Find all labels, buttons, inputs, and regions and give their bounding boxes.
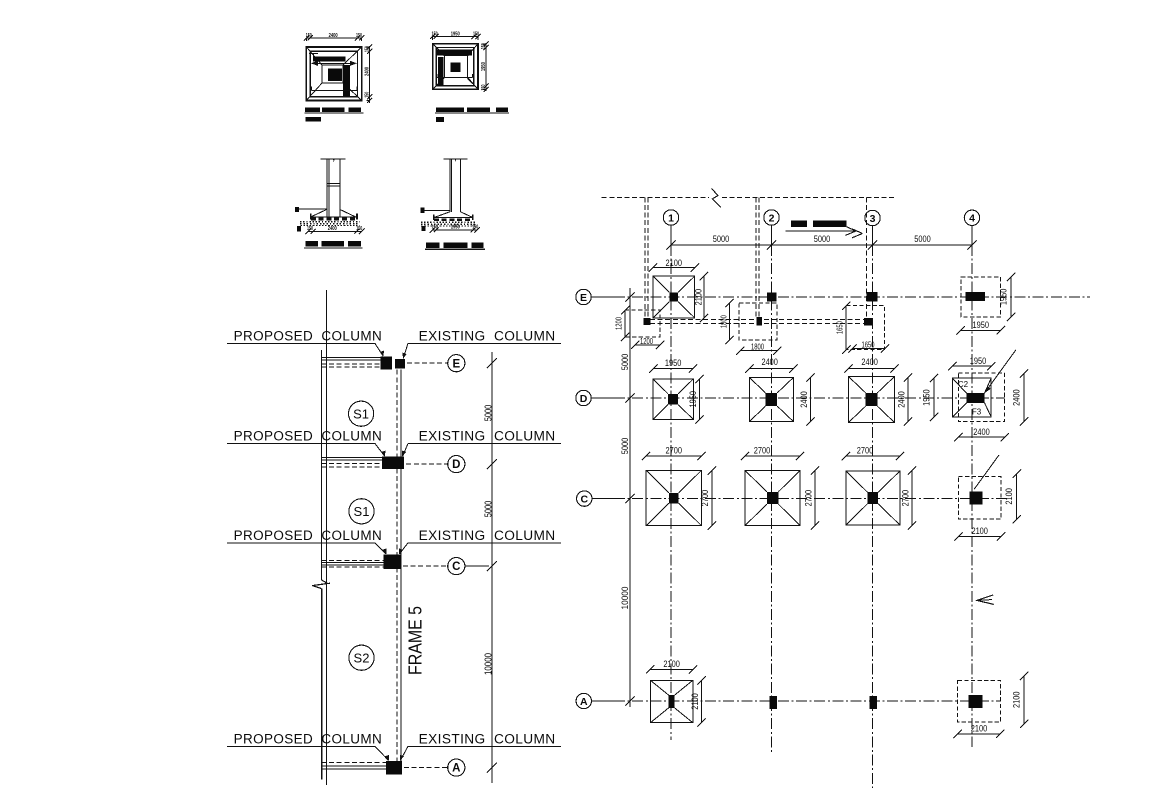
footing section S1 - left micro level marks <box>297 226 301 232</box>
svg-text:2400: 2400 <box>896 391 906 408</box>
column at E2 (hatched square on grid) <box>767 292 777 301</box>
footing detail F2 plan - inner edge <box>436 47 474 85</box>
footing section S1 - rebar dashes in slab <box>311 218 357 221</box>
svg-text:2100: 2100 <box>971 526 988 536</box>
row C - dashed line to grid bubble <box>403 565 447 567</box>
svg-text:2100: 2100 <box>971 724 988 734</box>
row C - grid bubble C <box>448 558 465 575</box>
row D - proposed column section (solid square) <box>382 457 404 469</box>
column at E4 (black wide) <box>966 292 985 301</box>
svg-text:2400: 2400 <box>365 67 371 76</box>
svg-text:2100: 2100 <box>663 659 680 669</box>
row E - PROPOSED COLUMN underline leader <box>227 342 375 344</box>
existing column solid edge (vertical) <box>400 370 402 761</box>
frame elevation - break symbol <box>312 580 327 589</box>
footing E1 - outline <box>653 276 695 318</box>
svg-text:2100: 2100 <box>1012 692 1022 709</box>
footing detail F2 plan - rebar label bar (redacted) <box>436 50 472 56</box>
svg-text:FRAME 5: FRAME 5 <box>405 606 425 675</box>
svg-text:10000: 10000 <box>483 653 494 675</box>
svg-text:150: 150 <box>432 31 438 37</box>
svg-text:1950: 1950 <box>999 289 1009 306</box>
footing C1 - column <box>669 493 679 504</box>
footing D4 - diagonals <box>952 378 966 393</box>
footing A4 - column (black) <box>969 695 983 708</box>
footing C2 - outline <box>745 471 800 526</box>
svg-text:1950: 1950 <box>481 62 487 71</box>
svg-text:1650: 1650 <box>836 321 845 334</box>
footing C3 - diagonals <box>846 471 868 492</box>
plan - grid line 1 (vertical) <box>670 225 672 245</box>
svg-text:PROPOSED COLUMN: PROPOSED COLUMN <box>234 429 383 445</box>
row E - grid bubble E <box>448 355 465 372</box>
svg-text:2700: 2700 <box>900 490 910 507</box>
column A3 (black) <box>870 696 877 709</box>
footing D3 - top dim 2400 <box>849 368 895 370</box>
svg-text:2700: 2700 <box>857 446 874 456</box>
footing C3 - right dim 2700 <box>911 471 913 526</box>
footing detail F1 plan - column (solid) <box>328 69 342 81</box>
svg-text:150: 150 <box>356 33 362 39</box>
plan - grid line 2 (vertical) <box>771 225 773 245</box>
svg-text:5000: 5000 <box>483 404 494 421</box>
svg-text:1950: 1950 <box>973 320 990 330</box>
svg-text:S2: S2 <box>354 650 370 665</box>
footing detail F2 plan - column (solid) <box>450 62 460 72</box>
footing C3 - outline <box>846 471 900 525</box>
footing detail F2 plan - outer edge <box>433 44 478 90</box>
footing D1 - top dim 1950 <box>653 368 693 370</box>
svg-text:2100: 2100 <box>690 693 700 710</box>
footing section S1 - bottom dimension line <box>308 230 361 232</box>
svg-text:1950: 1950 <box>665 358 682 368</box>
svg-text:2100: 2100 <box>666 258 683 268</box>
svg-text:150: 150 <box>473 31 479 37</box>
plan - grid row C line <box>592 498 614 500</box>
footing detail F1 - caption bars (redacted title) <box>305 108 320 113</box>
existing column at E2 (black) <box>757 317 762 325</box>
footing D2 - outline <box>749 378 793 422</box>
footing detail F2 plan - diagonal 3 <box>433 78 445 90</box>
footing C1 - diagonals <box>646 470 669 493</box>
svg-text:C2: C2 <box>958 380 969 389</box>
svg-text:EXISTING COLUMN: EXISTING COLUMN <box>419 328 556 344</box>
svg-text:PROPOSED COLUMN: PROPOSED COLUMN <box>234 731 383 747</box>
plan - existing building dashed outline (top) <box>602 196 709 198</box>
svg-text:2: 2 <box>769 212 775 224</box>
svg-text:EXISTING COLUMN: EXISTING COLUMN <box>419 731 556 747</box>
svg-text:5000: 5000 <box>620 438 631 455</box>
svg-text:PROPOSED COLUMN: PROPOSED COLUMN <box>234 328 383 344</box>
existing footing E3 - left dim 1650 <box>845 306 847 350</box>
plan - grid row A line <box>592 700 615 702</box>
footing C2 - right dim 2700 <box>814 471 816 526</box>
footing C2 - column <box>767 492 779 504</box>
row A - grid bubble A <box>448 759 465 776</box>
footing D2 - diagonals <box>749 378 765 393</box>
row A - beam lines <box>322 762 387 764</box>
plan - top dimension line <box>671 244 972 246</box>
plan - grid bubble 4 <box>964 210 979 225</box>
footing section S2 - column cap line <box>443 158 467 160</box>
svg-text:1200: 1200 <box>615 317 624 330</box>
svg-text:1950: 1950 <box>970 356 987 366</box>
plan - grid bubble 2 <box>764 210 779 225</box>
footing section S2 - bottom dimension line <box>432 229 477 231</box>
svg-text:2700: 2700 <box>700 490 710 507</box>
svg-text:1950: 1950 <box>688 391 698 408</box>
footing D1 - diagonals <box>653 379 668 394</box>
svg-text:C: C <box>581 493 589 505</box>
svg-text:10000: 10000 <box>620 587 631 610</box>
plan - grid bubble 3 <box>865 210 880 225</box>
footing D2 - top dim 2400 <box>749 368 793 370</box>
footing D2 - column <box>766 393 778 406</box>
footing detail F1 - top dimension line <box>306 37 361 39</box>
footing E4 - bottom dim 1950 <box>961 329 1001 331</box>
existing column at E3 (black) <box>864 318 872 325</box>
footing detail F1 plan - rebar label bar (redacted) <box>313 57 345 62</box>
plan - grid row E bubble <box>576 289 591 304</box>
footing A4 - dashed square <box>958 680 1001 722</box>
footing A4 - bottom dim 2100 <box>958 733 1001 735</box>
plan - grid row D line <box>591 397 614 399</box>
svg-text:150: 150 <box>472 225 478 231</box>
frame elevation - second vertical line lower segment <box>321 589 323 780</box>
footing detail F2 - right dimension line <box>485 43 487 91</box>
footing section S2 - column left edge lines <box>449 159 451 212</box>
svg-text:E: E <box>580 292 587 304</box>
frame elevation - S1 bubble lower <box>349 499 374 524</box>
footing detail F1 plan - rebar arrow line <box>313 62 356 64</box>
column at E3 (hatched square on grid) <box>867 292 878 301</box>
svg-text:2700: 2700 <box>754 446 771 456</box>
footing detail F1 - caption scale bar (redacted) <box>305 117 320 122</box>
footing section S1 - left haunch slope <box>312 209 327 216</box>
svg-text:1650: 1650 <box>862 341 875 350</box>
plan - grid row C bubble <box>577 491 592 506</box>
svg-text:1950: 1950 <box>451 225 460 231</box>
svg-text:150: 150 <box>307 226 313 232</box>
footing section S2 - caption bars (redacted title) <box>426 242 439 248</box>
footing section S2 - caption underline <box>425 248 485 250</box>
row E - proposed column section (solid square) <box>381 357 392 370</box>
row D - EXISTING COLUMN underline leader <box>408 442 561 444</box>
svg-text:S1: S1 <box>353 406 369 421</box>
plan - left dimension line (rows) <box>629 288 631 707</box>
svg-text:1950: 1950 <box>451 31 460 37</box>
footing detail F1 plan - diagonal 2 <box>343 47 362 65</box>
row D - grid bubble D <box>448 456 465 473</box>
svg-text:150: 150 <box>481 43 487 49</box>
footing section S2 - right haunch slope <box>461 212 474 218</box>
footing C2 - top dim 2700 <box>745 455 800 457</box>
existing footing at E1 - dashed square <box>625 310 660 337</box>
footing C3 - column <box>868 492 879 504</box>
footing section S2 - column right edge <box>460 159 462 212</box>
footing detail F1 plan - rebar label bar vertical (redacted) <box>343 65 350 97</box>
svg-text:F3: F3 <box>972 408 982 417</box>
plan - grid bubble 1 <box>663 210 678 225</box>
footing C4 - right dim 2100 <box>1016 474 1018 520</box>
svg-text:C: C <box>452 561 460 573</box>
footing section S2 - left micro level marks <box>422 226 426 231</box>
footing detail F1 plan - diagonal 1 <box>306 47 322 65</box>
svg-text:2400: 2400 <box>328 226 337 232</box>
footing detail F1 plan - diagonal 3 <box>306 83 322 100</box>
footing detail F1 plan - lower bar line <box>311 89 357 91</box>
footing C1 - right dim 2700 <box>711 471 713 526</box>
footing D4 - column (black wide) <box>967 393 985 403</box>
svg-text:1800: 1800 <box>751 343 764 352</box>
plan - open arrow marker on grid 4 <box>977 595 994 605</box>
svg-text:2700: 2700 <box>803 490 813 507</box>
footing section S1 - column cap line <box>320 158 345 160</box>
svg-text:4: 4 <box>969 213 975 225</box>
footing section S2 - cap center tick <box>455 159 457 162</box>
footing E1 - right dim 2100 <box>703 276 705 318</box>
svg-text:2700: 2700 <box>666 446 683 456</box>
row E - EXISTING COLUMN underline leader <box>408 342 561 344</box>
row A - PROPOSED COLUMN underline leader <box>227 745 375 747</box>
footing detail F2 - caption bars (redacted title) <box>436 108 464 113</box>
svg-text:2400: 2400 <box>329 33 338 39</box>
existing column hidden edge (dashed vertical) <box>396 370 398 761</box>
footing detail F1 plan - inner edge <box>310 51 357 96</box>
footing detail F2 plan - diagonal 4 <box>468 78 478 90</box>
footing D1 - outline <box>653 379 693 419</box>
svg-text:D: D <box>580 393 588 405</box>
footing section S1 - footing top edge <box>310 216 357 218</box>
svg-text:2400: 2400 <box>973 427 990 437</box>
footing E4 - right dim 1950 <box>1010 277 1012 317</box>
footing E1 - diagonals <box>653 276 670 292</box>
plan - existing column dashed pair at grid 1 <box>644 197 646 318</box>
svg-text:5000: 5000 <box>483 500 494 517</box>
svg-text:150: 150 <box>481 84 487 90</box>
plan - redacted note bars near grid 3 <box>791 221 807 228</box>
footing section S2 - ground line <box>422 209 449 211</box>
plan - note leader arrow to grid 3 <box>786 230 856 232</box>
svg-text:EXISTING COLUMN: EXISTING COLUMN <box>419 429 556 445</box>
svg-text:2400: 2400 <box>861 357 878 367</box>
footing D4 - right dim 2400 <box>1023 374 1025 422</box>
row E - beam lines <box>322 357 381 359</box>
footing section S1 - right haunch slope <box>340 209 356 217</box>
footing section S2 - blinding stipple band <box>421 221 476 223</box>
footing D1 - right dim 1950 <box>699 379 701 420</box>
row E - existing column section (solid square) <box>395 359 405 369</box>
footing section S1 - column left edge lines <box>326 159 328 217</box>
existing column at E1 (black) <box>644 318 651 325</box>
footing E1 - column <box>670 292 679 301</box>
svg-text:150: 150 <box>432 225 438 231</box>
footing D2 - right dim 2400 <box>810 378 812 422</box>
footing E4 - dashed square <box>961 277 1001 317</box>
svg-text:1950: 1950 <box>922 389 932 406</box>
row D - PROPOSED COLUMN underline leader <box>227 442 375 444</box>
footing detail F2 plan - diagonal 2 <box>468 44 478 56</box>
footing detail F2 plan - rebar label bar vertical (redacted) <box>438 57 443 86</box>
svg-text:5000: 5000 <box>814 234 831 244</box>
existing footing at E2 - dashed square <box>739 303 777 340</box>
svg-text:5000: 5000 <box>620 354 631 371</box>
row E - dashed line to grid bubble <box>407 362 447 364</box>
svg-text:150: 150 <box>365 46 371 52</box>
plan - existing column dashed pair at grid 2 <box>755 197 757 317</box>
svg-text:2100: 2100 <box>694 289 704 306</box>
row D - beam lines <box>322 457 383 459</box>
row D - dashed line to grid bubble <box>406 463 447 465</box>
svg-text:3: 3 <box>870 213 876 225</box>
footing D3 - outline <box>849 377 895 423</box>
plan - grid row E line <box>591 296 614 298</box>
footing D4 - dashed square <box>958 373 1004 422</box>
footing C4 - dashed square <box>958 477 1001 520</box>
svg-text:1: 1 <box>668 212 674 224</box>
svg-text:5000: 5000 <box>713 234 730 244</box>
row A - dashed line to grid bubble <box>404 767 447 769</box>
footing detail F2 - top dimension line <box>432 36 477 38</box>
footing detail F2 plan - diagonal 1 <box>433 44 445 56</box>
row C - proposed column section (solid square) <box>384 555 402 570</box>
footing detail F1 plan - pedestal outline <box>322 65 343 83</box>
footing D4 - bottom dim 2400 <box>958 436 1004 438</box>
svg-text:1800: 1800 <box>720 315 729 328</box>
plan - existing columns tie dashed band <box>650 319 864 321</box>
footing detail F2 plan - lower bar line <box>437 77 472 79</box>
svg-text:S1: S1 <box>354 504 370 519</box>
footing E1 - top dim 2100 <box>653 267 695 269</box>
svg-text:2100: 2100 <box>1004 488 1014 505</box>
footing detail F2 - caption scale bar (redacted) <box>436 117 444 122</box>
footing detail F1 plan - outer edge <box>306 47 361 101</box>
frame elevation - right dimension line <box>491 352 493 783</box>
footing section S1 - ground line <box>297 208 327 210</box>
frame elevation - S2 bubble <box>349 645 374 670</box>
footing section S1 - blinding stipple band <box>300 221 360 223</box>
row C - EXISTING COLUMN underline leader <box>408 542 561 544</box>
svg-text:150: 150 <box>365 92 371 98</box>
svg-text:1200: 1200 <box>640 337 653 346</box>
footing A1 - outline <box>650 680 692 722</box>
footing D4 - left dim 1950 <box>933 378 935 417</box>
svg-text:A: A <box>452 763 460 775</box>
column A2 (black) <box>770 696 777 709</box>
footing section S1 - splice lines <box>327 182 340 184</box>
svg-text:5000: 5000 <box>914 234 931 244</box>
footing C1 - outline <box>646 470 701 525</box>
plan - grid row D bubble <box>576 390 591 405</box>
footing D1 - column <box>668 394 678 405</box>
svg-text:PROPOSED COLUMN: PROPOSED COLUMN <box>234 528 383 544</box>
svg-text:2400: 2400 <box>761 357 778 367</box>
footing detail F1 - right dimension line <box>369 46 371 103</box>
existing footing E1 - bottom dim 1200 <box>635 344 660 346</box>
existing footing E2 - bottom dim 1800 <box>740 350 777 352</box>
row A - proposed column section (solid square) <box>386 761 402 775</box>
footing C4 - column (black) <box>969 491 982 504</box>
svg-text:A: A <box>580 696 588 708</box>
frame elevation - tall vertical line <box>325 290 327 785</box>
footing section S1 - column right edge <box>339 159 341 217</box>
footing A1 - top dim 2100 <box>650 668 693 670</box>
existing footing E2 - left dim 1800 <box>729 303 731 340</box>
footing D4 - solid square outline <box>952 378 991 417</box>
existing footing E3 - bottom dim 1650 <box>852 348 885 350</box>
svg-text:EXISTING COLUMN: EXISTING COLUMN <box>419 528 556 544</box>
footing C2 - diagonals <box>745 471 767 492</box>
footing C4 - bottom dim 2100 <box>958 535 1001 537</box>
plan - grid line 4 (vertical) <box>971 226 973 246</box>
row A - EXISTING COLUMN underline leader <box>408 745 561 747</box>
footing D3 - right dim 2400 <box>907 378 909 422</box>
footing detail F2 plan - corner slash <box>468 78 473 84</box>
svg-text:E: E <box>452 358 460 370</box>
existing footing at E3 - dashed square <box>846 306 885 350</box>
svg-text:2400: 2400 <box>1012 389 1022 406</box>
svg-text:150: 150 <box>306 33 312 39</box>
footing A4 - right dim 2100 <box>1023 676 1025 724</box>
footing A1 - column <box>669 695 675 708</box>
svg-text:150: 150 <box>356 226 362 232</box>
footing section S1 - caption bars (redacted title) <box>306 241 318 247</box>
frame elevation - second vertical line upper segment <box>321 350 323 580</box>
footing C4 - leader slash <box>974 455 999 489</box>
footing section S2 - left haunch slope <box>434 212 450 218</box>
footing A1 - diagonals <box>650 680 668 695</box>
footing D4 - top dim 1950 <box>952 365 991 367</box>
footing C3 - top dim 2700 <box>846 455 900 457</box>
footing C1 - top dim 2700 <box>646 455 702 457</box>
existing footing E1 - left dim 1200 <box>624 310 626 337</box>
footing detail F1 plan - diagonal 4 <box>343 83 362 100</box>
footing detail F2 plan - pedestal outline <box>444 56 467 78</box>
footing D3 - diagonals <box>849 377 866 393</box>
footing D4 - leader slash <box>985 350 1017 393</box>
plan - grid row A bubble <box>576 693 591 708</box>
plan - break symbol on dashed outline <box>712 189 722 208</box>
footing detail F1 - caption underline <box>305 112 364 114</box>
footing A1 - right dim 2100 <box>701 681 703 723</box>
footing section S1 - caption underline <box>304 247 363 249</box>
plan - existing column dashed line at grid 3 <box>865 197 867 318</box>
svg-text:D: D <box>452 459 460 471</box>
row C - PROPOSED COLUMN underline leader <box>227 542 375 544</box>
footing D3 - column <box>866 393 878 406</box>
frame elevation - S1 bubble upper <box>349 401 374 426</box>
footing section S1 - cap center tick <box>333 159 335 162</box>
svg-text:2400: 2400 <box>799 391 809 408</box>
plan - grid line 3 (vertical) <box>872 226 874 245</box>
footing section S2 - rebar dashes in slab <box>434 218 473 221</box>
row C - line from bubble to dimension line <box>465 565 489 567</box>
footing section S2 - footing top edge <box>433 217 474 219</box>
row C - beam lines <box>322 560 384 562</box>
footing detail F2 - caption underline <box>435 112 509 114</box>
